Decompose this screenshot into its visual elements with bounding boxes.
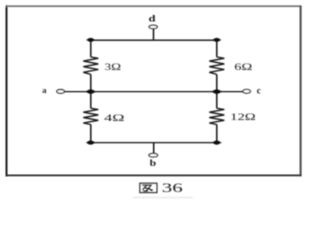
svg-text:12Ω: 12Ω — [230, 113, 256, 123]
svg-text:c: c — [257, 85, 261, 95]
svg-text:36: 36 — [162, 180, 184, 195]
svg-text:a: a — [42, 85, 47, 95]
svg-text:b: b — [150, 158, 157, 168]
svg-text:d: d — [149, 13, 156, 23]
svg-text:6Ω: 6Ω — [234, 63, 252, 73]
svg-text:4Ω: 4Ω — [104, 114, 125, 124]
svg-text:3Ω: 3Ω — [105, 63, 122, 73]
